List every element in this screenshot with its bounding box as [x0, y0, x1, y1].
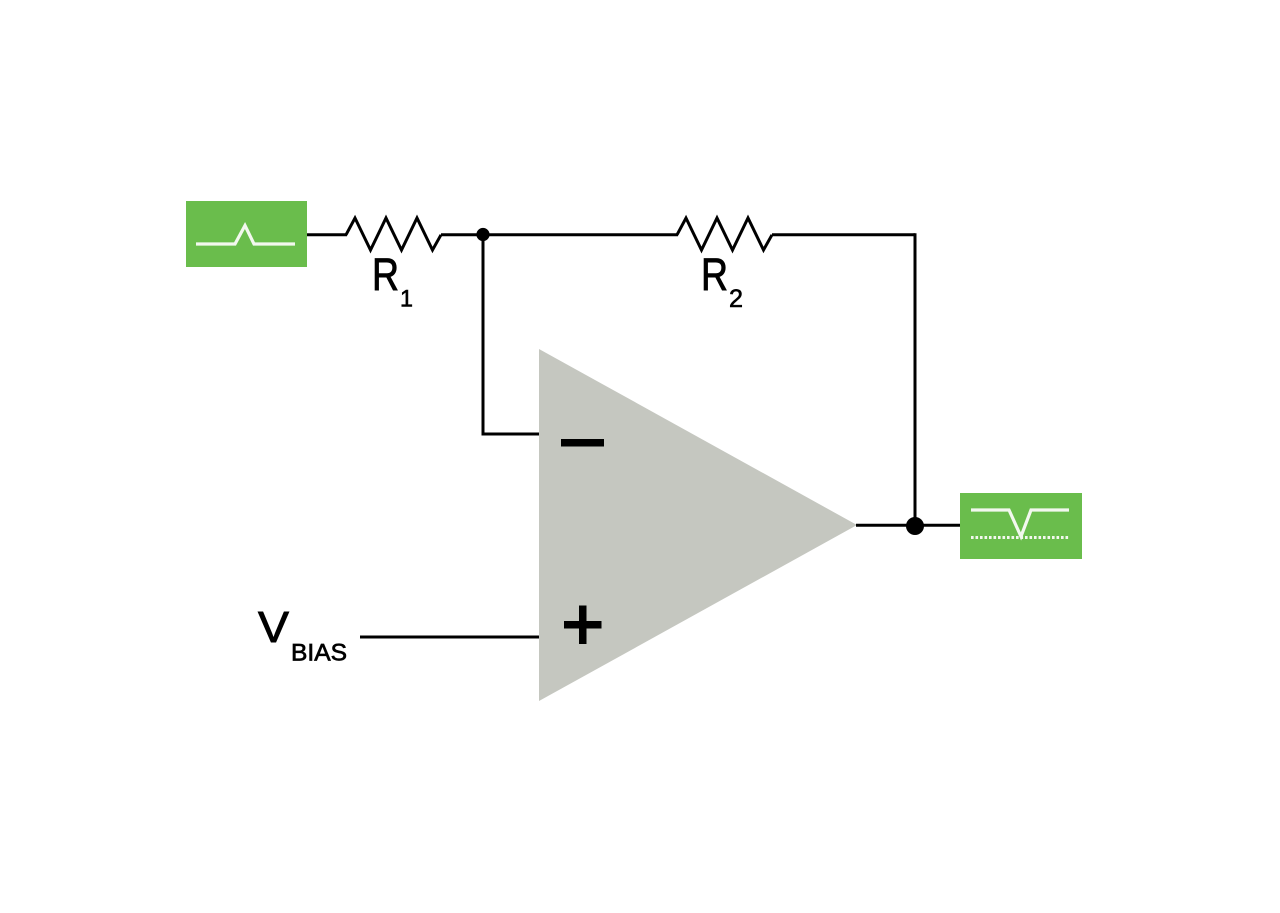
wire node A to R2: [483, 233, 678, 236]
wire from input box to R1: [307, 233, 347, 236]
output wire from op-amp to output box: [856, 524, 960, 527]
label R1: [372, 249, 413, 313]
svg-text:R: R: [372, 249, 399, 300]
wire from R2 to top-right corner: [772, 233, 915, 236]
node A (junction at inverting input): [476, 228, 489, 241]
resistor R1: [346, 218, 441, 250]
feedback wire vertical down to output node: [914, 233, 917, 527]
wire into inverting input of op-amp: [482, 433, 541, 436]
svg-text:R: R: [701, 249, 728, 300]
svg-text:V: V: [258, 603, 290, 652]
node B (output junction): [906, 517, 924, 535]
resistor R2: [677, 218, 772, 250]
label V_BIAS: [258, 603, 347, 667]
svg-text:BIAS: BIAS: [291, 640, 347, 667]
svg-text:2: 2: [729, 285, 743, 313]
op-amp U1 (triangle body): [539, 349, 857, 701]
wire from R1 to node A: [441, 233, 483, 236]
input source box (pulse signal): [186, 201, 307, 267]
op-amp inverting input marker (minus): [561, 439, 604, 447]
wire node A down to inverting input: [482, 235, 485, 435]
wire from V_BIAS to non-inverting input: [360, 636, 540, 639]
output box (inverted pulse signal): [960, 493, 1082, 559]
svg-text:1: 1: [400, 286, 413, 313]
label R2: [701, 249, 743, 313]
op-amp non-inverting input marker (plus): [564, 606, 602, 645]
